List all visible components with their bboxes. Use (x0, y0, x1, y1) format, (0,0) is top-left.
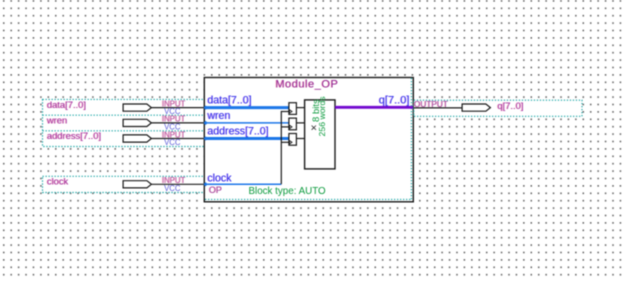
clock net routing (281, 111, 289, 184)
input pin clock (43, 176, 205, 193)
pin symbol data[7..0] (123, 104, 151, 111)
block U1 Module_OP (204, 78, 413, 202)
wire block to q pin (414, 107, 462, 109)
selection dashes block bottom edge (205, 198, 411, 200)
wire reg1 out (296, 107, 304, 109)
port clock (203, 173, 281, 187)
input pin data[7..0] (43, 99, 205, 147)
svg-text:wren: wren (207, 110, 231, 122)
wire clock vertical (280, 111, 282, 184)
node clock port junction (203, 182, 207, 186)
input pin address[7..0] (47, 130, 204, 147)
wire data bus (205, 106, 289, 109)
node wren port junction (203, 121, 207, 125)
svg-text:address[7..0]: address[7..0] (47, 130, 101, 141)
wire wren (205, 122, 289, 124)
wire clock stub reg1 (281, 111, 289, 113)
pin symbol wren (123, 119, 151, 126)
register reg3 address (289, 134, 305, 146)
wire clock stub reg2 (281, 126, 289, 128)
selection dashes block right edge (410, 78, 412, 199)
wire reg3 out (296, 138, 304, 140)
svg-text:×: × (308, 124, 320, 130)
pin symbol q[7..0] (462, 104, 490, 111)
register reg1 data (289, 103, 305, 115)
svg-text:OP: OP (209, 185, 222, 195)
RAM array 8 bits x 256 words (305, 96, 335, 169)
input pin wren (46, 114, 204, 131)
pin symbol address[7..0] (123, 135, 151, 142)
wire clock (205, 183, 281, 185)
svg-text:Module_OP: Module_OP (275, 79, 338, 91)
pin symbol clock (123, 181, 151, 188)
wire clock stub reg3 (281, 141, 289, 143)
svg-text:address[7..0]: address[7..0] (208, 125, 269, 137)
wire data pin to block (151, 107, 205, 109)
port data[7..0] (203, 94, 289, 109)
svg-text:data[7..0]: data[7..0] (208, 94, 252, 106)
svg-text:wren: wren (46, 114, 67, 125)
svg-text:q[7..0]: q[7..0] (379, 94, 410, 106)
selection box clock pin (43, 176, 205, 192)
wire q bus (335, 106, 413, 109)
wire address bus (205, 137, 289, 140)
svg-text:q[7..0]: q[7..0] (498, 100, 524, 111)
svg-text:VCC: VCC (164, 138, 181, 147)
wire clock pin to block (151, 183, 205, 185)
svg-text:clock: clock (208, 173, 233, 185)
svg-text:clock: clock (47, 176, 69, 187)
wire wren pin to block (151, 122, 205, 124)
port wren (203, 110, 289, 125)
node address port junction (203, 136, 207, 140)
svg-text:Block type: AUTO: Block type: AUTO (249, 186, 327, 197)
wire reg2 out (296, 122, 304, 124)
output pin q[7..0] (414, 99, 582, 116)
node data port junction (203, 105, 207, 109)
register reg2 wren (289, 118, 305, 130)
port address[7..0] (203, 125, 289, 140)
wire address pin to block (151, 138, 205, 140)
svg-text:data[7..0]: data[7..0] (47, 99, 86, 110)
svg-text:OUTPUT: OUTPUT (414, 99, 448, 109)
selection box input pins data/wren/address (43, 99, 205, 146)
selection box q pin (414, 100, 582, 116)
svg-text:VCC: VCC (164, 184, 181, 193)
